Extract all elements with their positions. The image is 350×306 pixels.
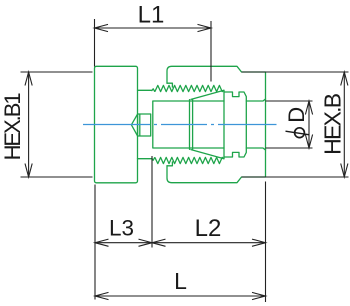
svg-text:L1: L1	[138, 1, 165, 28]
svg-text:HEX.B1: HEX.B1	[0, 92, 25, 160]
svg-text:L2: L2	[195, 215, 222, 242]
svg-text:L: L	[174, 268, 187, 294]
svg-text:D: D	[284, 107, 309, 123]
svg-text:L3: L3	[109, 215, 134, 240]
svg-text:HEX.B: HEX.B	[320, 93, 346, 155]
